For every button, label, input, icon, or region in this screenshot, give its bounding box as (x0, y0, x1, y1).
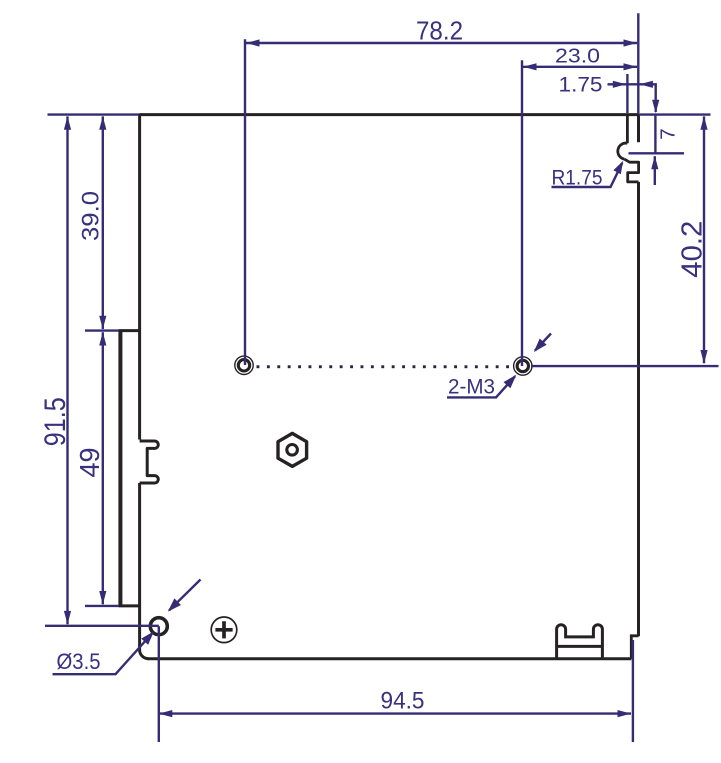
case bottom edge (148, 657, 632, 660)
dotted centre line between M3 holes (257, 365, 260, 368)
arrow 7 top (down) (652, 100, 659, 114)
arrow 23.0 left (523, 63, 537, 70)
svg-text:78.2: 78.2 (416, 16, 463, 46)
case left edge upper segment (138, 113, 141, 439)
dimension line 91.5 (66, 116, 68, 624)
arrow 7 bottom (up) (651, 156, 658, 170)
svg-text:Ø3.5: Ø3.5 (57, 649, 101, 674)
case top edge (140, 113, 639, 116)
cross of ground mark (215, 621, 232, 638)
svg-text:23.0: 23.0 (555, 45, 600, 68)
M3 screw hole left inner (238, 360, 249, 371)
leader left hole upper diagonal (169, 580, 200, 611)
bottom latch base line (557, 645, 603, 648)
svg-text:49: 49 (74, 448, 105, 478)
DIN-rail clip plate left edge (118, 331, 122, 606)
dimension line 49 (102, 332, 104, 604)
mounting hole ring (bottom-left) (150, 618, 167, 635)
arrow 91.5 bottom (64, 611, 71, 625)
dimension line 78.2 (246, 42, 637, 44)
arrow 39.0 top (99, 116, 106, 130)
extension line case right edge vertical (top) (637, 13, 639, 113)
dimension line 23.0 (523, 66, 637, 68)
svg-text:7: 7 (657, 128, 680, 139)
hex nut center hole (287, 445, 298, 456)
arrow 91.5 top (64, 116, 71, 130)
dimension line 40.2 (703, 116, 705, 363)
cover lip inner line (626, 114, 629, 143)
arrow 78.2 left (246, 39, 260, 46)
extension line left M3 hole vertical (244, 39, 246, 365)
extension line right M3 hole horizontal (531, 365, 719, 367)
extension line clip bottom (85, 605, 119, 607)
M3 screw hole left outer (235, 356, 253, 374)
M3 screw hole right outer (514, 357, 532, 375)
bottom latch staple outline (557, 625, 603, 659)
extension line case top-right horizontal (639, 113, 711, 115)
extension line cover lip vertical (top) (626, 74, 628, 113)
case right edge upper segment (637, 113, 640, 142)
arrow 39.0 bottom (99, 316, 106, 330)
extension line clip top (85, 329, 119, 331)
leader 2-M3 underline+diagonal (447, 376, 515, 397)
leader Ø3.5 underline+diagonal (53, 633, 153, 675)
extension line mounting hole horizontal (45, 625, 159, 627)
case bottom-left rounded corner (140, 650, 149, 659)
dimension line 39.0 (102, 116, 104, 329)
case bottom-right corner step (631, 636, 638, 659)
arrow 49 top (99, 332, 106, 346)
DIN-clip latch tongue (140, 441, 159, 483)
DIN-rail clip plate top edge (119, 329, 140, 332)
svg-text:94.5: 94.5 (381, 688, 425, 715)
svg-text:R1.75: R1.75 (552, 165, 603, 189)
cross-in-circle ground mark (211, 617, 237, 643)
arrow R1.75 leader (613, 161, 623, 175)
extension line 94.5 right vertical (632, 640, 634, 742)
arrow 94.5 right (618, 710, 632, 717)
cover lip curl (R1.75 hook) (618, 143, 628, 159)
dimension line 7 bottom tail (654, 156, 656, 185)
leader right hole upper diagonal (535, 334, 551, 351)
arrow 40.2 top (700, 116, 707, 130)
arrow 40.2 bottom (700, 350, 707, 364)
DIN-rail clip plate bottom edge (119, 604, 140, 607)
dimension line 1.75 (608, 84, 656, 112)
arrow left-hole leader (168, 598, 181, 611)
svg-text:40.2: 40.2 (677, 221, 709, 278)
arrow 94.5 left (159, 710, 173, 717)
svg-text:39.0: 39.0 (78, 191, 105, 241)
case right edge lower segment (637, 182, 640, 636)
extension line right M3 hole vertical (521, 60, 523, 366)
M3 screw hole right inner (517, 360, 528, 371)
cover lip lower step tab (625, 159, 639, 182)
extension line 94.5 left vertical (158, 626, 160, 742)
arrow 2-M3 leader (504, 375, 517, 389)
arrow 23.0 right (624, 63, 638, 70)
case left edge lower segment (138, 483, 141, 651)
extension line cover hook horizontal (629, 152, 685, 154)
arrow 49 bottom (99, 591, 106, 605)
arrow Ø3.5 leader (141, 631, 154, 645)
arrow 78.2 right (624, 39, 638, 46)
extension line top-left (case top) (48, 113, 140, 115)
arrow right-hole leader (534, 339, 547, 353)
svg-text:2-M3: 2-M3 (448, 376, 495, 399)
dimension line 94.5 (159, 712, 631, 714)
hex nut (278, 433, 307, 466)
arrow 1.75 right (639, 81, 653, 88)
svg-text:1.75: 1.75 (559, 74, 603, 97)
leader R1.75 underline+diagonal (552, 163, 623, 187)
svg-text:91.5: 91.5 (39, 397, 72, 446)
arrow 1.75 left (613, 81, 627, 88)
dimension line 7 middle segment (654, 115, 656, 153)
